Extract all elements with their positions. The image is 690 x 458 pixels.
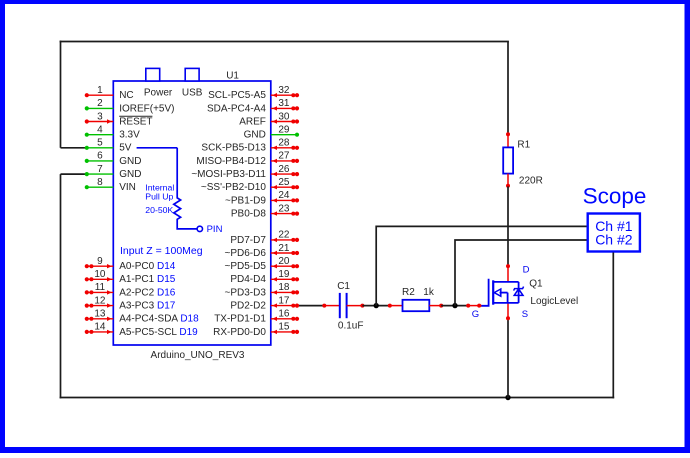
label LogicLevel xyxy=(530,296,578,307)
svg-text:5V: 5V xyxy=(119,143,132,154)
svg-text:Scope: Scope xyxy=(583,183,647,208)
svg-text:6: 6 xyxy=(97,151,103,162)
U1 pin 23 PB0-D8 xyxy=(231,203,299,219)
svg-text:VIN: VIN xyxy=(119,182,136,193)
label Scope title xyxy=(583,183,647,208)
svg-text:~PB1-D9: ~PB1-D9 xyxy=(225,195,266,206)
label Power xyxy=(144,88,173,99)
svg-text:1: 1 xyxy=(97,85,103,96)
U1 pin 1 NC xyxy=(85,85,134,101)
svg-text:C1: C1 xyxy=(337,281,350,292)
svg-text:13: 13 xyxy=(94,309,106,320)
svg-text:1k: 1k xyxy=(423,287,435,298)
svg-text:27: 27 xyxy=(278,151,290,162)
U1 pin 7 GND xyxy=(85,164,142,180)
svg-text:9: 9 xyxy=(97,256,103,267)
svg-text:GND: GND xyxy=(119,169,141,180)
svg-text:19: 19 xyxy=(278,269,290,280)
label R2 value xyxy=(402,287,435,298)
svg-text:~PD3-D3: ~PD3-D3 xyxy=(224,287,266,298)
svg-text:31: 31 xyxy=(278,98,290,109)
wire scope Ch2 xyxy=(455,240,587,306)
wire pin17 to C1 xyxy=(297,304,326,308)
svg-text:~SS'-PB2-D10: ~SS'-PB2-D10 xyxy=(201,182,266,193)
U1 pin 22 PD7-D7 xyxy=(230,230,299,246)
wire scope to GND rail xyxy=(612,253,614,399)
U1 pin 4 3.3V xyxy=(85,125,140,141)
svg-text:Arduino_UNO_REV3: Arduino_UNO_REV3 xyxy=(151,350,245,361)
svg-text:2: 2 xyxy=(97,98,103,109)
label S xyxy=(522,309,528,320)
svg-text:12: 12 xyxy=(94,295,106,306)
svg-text:IOREF(+5V): IOREF(+5V) xyxy=(119,103,174,114)
U1 pin 24 ~PB1-D9 xyxy=(225,190,299,206)
svg-text:16: 16 xyxy=(278,309,290,320)
U1 pin 8 VIN xyxy=(85,177,136,193)
label R1 value xyxy=(517,139,542,186)
svg-text:14: 14 xyxy=(94,322,106,333)
U1 pin 27 MISO-PB4-D12 xyxy=(196,151,299,167)
svg-text:3: 3 xyxy=(97,111,103,122)
U1 pin 10 A1-PC1 xyxy=(85,269,176,285)
svg-text:U1: U1 xyxy=(226,70,239,81)
U1 pin 21 ~PD6-D6 xyxy=(224,243,299,259)
label Input Z xyxy=(120,245,203,257)
U1 pin 6 GND xyxy=(85,151,142,167)
svg-text:NC: NC xyxy=(119,90,133,101)
svg-text:PD7-D7: PD7-D7 xyxy=(230,235,266,246)
svg-text:A4-PC4-SDA D18: A4-PC4-SDA D18 xyxy=(119,314,199,325)
transistor Q1 (N-MOSFET) xyxy=(481,264,524,320)
svg-text:18: 18 xyxy=(278,282,290,293)
svg-text:PD2-D2: PD2-D2 xyxy=(230,301,266,312)
label 20-50K xyxy=(145,205,173,215)
svg-text:PIN: PIN xyxy=(207,224,223,235)
svg-text:MISO-PB4-D12: MISO-PB4-D12 xyxy=(196,156,266,167)
wire gate pin xyxy=(466,304,481,308)
svg-text:17: 17 xyxy=(278,295,290,306)
svg-text:S: S xyxy=(522,309,528,320)
svg-text:11: 11 xyxy=(95,282,106,293)
svg-text:7: 7 xyxy=(97,164,103,175)
U1 pin 31 SDA-PC4-A4 xyxy=(207,98,299,114)
scope box xyxy=(588,214,640,252)
svg-text:SCL-PC5-A5: SCL-PC5-A5 xyxy=(208,90,266,101)
label C1 value xyxy=(338,321,364,332)
svg-text:G: G xyxy=(472,309,479,320)
U1 pin 25 ~SS'-PB2-D10 xyxy=(201,177,299,193)
label Internal Pull Up xyxy=(145,183,174,202)
svg-text:24: 24 xyxy=(278,190,290,201)
svg-text:15: 15 xyxy=(278,322,290,333)
label Ch #1 xyxy=(595,218,633,234)
svg-text:Power: Power xyxy=(144,88,173,99)
svg-text:30: 30 xyxy=(278,111,290,122)
svg-text:23: 23 xyxy=(278,203,290,214)
wire GND bottom rail xyxy=(60,397,615,399)
svg-text:SDA-PC4-A4: SDA-PC4-A4 xyxy=(207,103,266,114)
svg-text:LogicLevel: LogicLevel xyxy=(530,296,578,307)
svg-text:5: 5 xyxy=(97,138,103,149)
wire GND left vertical xyxy=(61,174,88,398)
svg-text:A0-PC0 D14: A0-PC0 D14 xyxy=(119,261,176,272)
wire scope Ch1 xyxy=(376,226,587,305)
node Ch2 junction xyxy=(452,303,457,308)
resistor R2 xyxy=(388,300,443,311)
label G xyxy=(472,309,479,320)
U1 pin 3 RESET xyxy=(85,111,153,127)
U1 pin 30 AREF xyxy=(239,111,299,127)
svg-text:R2: R2 xyxy=(402,287,415,298)
svg-text:A5-PC5-SCL D19: A5-PC5-SCL D19 xyxy=(119,327,198,338)
svg-text:32: 32 xyxy=(278,85,290,96)
U1 pin 29 GND xyxy=(244,125,299,141)
wire Q1 source to GND rail xyxy=(507,318,509,398)
svg-text:GND: GND xyxy=(119,156,141,167)
U1 pin 16 TX-PD1-D1 xyxy=(214,309,299,325)
svg-text:220R: 220R xyxy=(519,175,543,186)
label Arduino_UNO_REV3 xyxy=(151,350,245,361)
U1 pin 9 A0-PC0 xyxy=(85,256,176,272)
svg-text:A2-PC2 D16: A2-PC2 D16 xyxy=(119,287,176,298)
U1 pin 20 ~PD5-D5 xyxy=(224,256,299,272)
label D xyxy=(523,265,530,276)
wire R1 to Q1 drain xyxy=(507,186,509,266)
internal pull-up resistor xyxy=(137,148,197,229)
node Ch1 junction xyxy=(374,303,379,308)
label Q1 xyxy=(529,278,543,289)
svg-text:22: 22 xyxy=(278,230,290,241)
U1 pin 18 ~PD3-D3 xyxy=(224,282,299,298)
svg-text:AREF: AREF xyxy=(239,116,266,127)
U1 pin 17 PD2-D2 xyxy=(230,295,299,311)
svg-text:GND: GND xyxy=(244,130,266,141)
label U1 xyxy=(226,70,239,81)
svg-text:D: D xyxy=(523,265,530,276)
svg-text:20: 20 xyxy=(278,256,290,267)
capacitor C1 xyxy=(324,293,364,318)
svg-text:RESET: RESET xyxy=(119,116,152,127)
U1 pin 15 RX-PD0-D0 xyxy=(213,322,299,338)
svg-text:A3-PC3 D17: A3-PC3 D17 xyxy=(119,301,176,312)
node GND junction xyxy=(505,395,510,400)
svg-text:USB: USB xyxy=(182,88,203,99)
wire R2 to gate xyxy=(441,305,467,307)
svg-text:TX-PD1-D1: TX-PD1-D1 xyxy=(214,314,266,325)
label C1 xyxy=(337,281,350,292)
svg-text:RX-PD0-D0: RX-PD0-D0 xyxy=(213,327,266,338)
svg-text:4: 4 xyxy=(97,125,103,136)
svg-text:0.1uF: 0.1uF xyxy=(338,321,364,332)
svg-text:29: 29 xyxy=(278,125,290,136)
U1 pin 11 A2-PC2 xyxy=(85,282,176,298)
svg-text:26: 26 xyxy=(278,164,290,175)
U1 pin 5 5V xyxy=(85,138,132,154)
wire 5V stub to pin 5 xyxy=(61,147,88,149)
svg-text:Q1: Q1 xyxy=(529,278,543,289)
svg-text:PD4-D4: PD4-D4 xyxy=(230,274,266,285)
svg-text:Pull Up: Pull Up xyxy=(145,191,173,201)
resistor R1 xyxy=(503,132,513,187)
svg-text:R1: R1 xyxy=(517,139,530,150)
U1 pin 26 ~MOSI-PB3-D11 xyxy=(191,164,299,180)
U1 pin 13 A4-PC4-SDA xyxy=(85,309,199,325)
U1 pin 14 A5-PC5-SCL xyxy=(85,322,198,338)
svg-text:20-50K: 20-50K xyxy=(145,205,173,215)
svg-text:10: 10 xyxy=(94,269,106,280)
svg-text:~PD6-D6: ~PD6-D6 xyxy=(224,248,266,259)
svg-text:8: 8 xyxy=(97,177,103,188)
svg-text:~MOSI-PB3-D11: ~MOSI-PB3-D11 xyxy=(191,169,266,180)
svg-text:Ch #2: Ch #2 xyxy=(595,231,633,247)
U1 pin 19 PD4-D4 xyxy=(230,269,299,285)
wire C1 to R2 xyxy=(362,305,390,307)
IC U1 Arduino_UNO_REV3 body xyxy=(113,68,270,345)
wire 5V rail top xyxy=(60,41,509,148)
svg-text:25: 25 xyxy=(278,177,290,188)
label USB xyxy=(182,88,203,99)
svg-text:PB0-D8: PB0-D8 xyxy=(231,209,266,220)
svg-text:28: 28 xyxy=(278,138,290,149)
svg-text:~PD5-D5: ~PD5-D5 xyxy=(224,261,266,272)
svg-text:A1-PC1 D15: A1-PC1 D15 xyxy=(119,274,176,285)
U1 pin 32 SCL-PC5-A5 xyxy=(208,85,299,101)
svg-text:21: 21 xyxy=(278,243,290,254)
U1 pin 2 IOREF xyxy=(85,98,175,114)
PIN terminal xyxy=(197,224,222,235)
U1 pin 28 SCK-PB5-D13 xyxy=(201,138,299,154)
svg-text:3.3V: 3.3V xyxy=(119,130,140,141)
label Ch #2 xyxy=(595,231,633,247)
svg-text:Input Z = 100Meg: Input Z = 100Meg xyxy=(120,245,203,257)
wire drain rail upper xyxy=(507,42,509,134)
U1 pin 12 A3-PC3 xyxy=(85,295,176,311)
svg-text:SCK-PB5-D13: SCK-PB5-D13 xyxy=(201,143,266,154)
